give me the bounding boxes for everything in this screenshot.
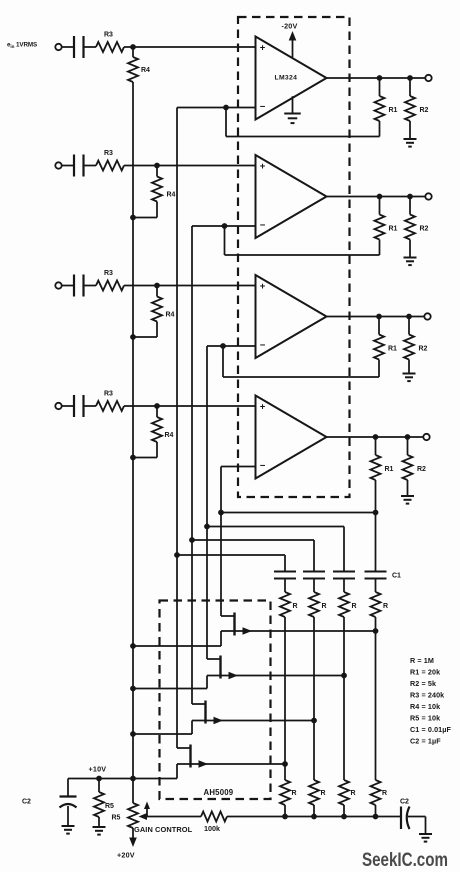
svg-text:+: + (260, 281, 266, 292)
transistor Q4 channel bar (189, 745, 191, 768)
svg-text:R: R (351, 790, 356, 797)
node input junction stage 4 (154, 403, 160, 409)
resistor R1 stage 1 (379, 78, 381, 96)
wire C2 to ground (408, 816, 426, 818)
wire (375, 617, 377, 780)
ground (R2 stage 2) (409, 240, 411, 258)
svg-text:SeekIC.com: SeekIC.com (362, 850, 448, 871)
resistor R (upper) stage 3 (339, 592, 349, 617)
node bottom line junction stage 2 (311, 814, 317, 820)
wire output stage 3 (327, 316, 425, 318)
node bottom line junction stage 4 (373, 814, 379, 820)
svg-text:R2: R2 (420, 226, 429, 233)
transistor Q2 gate/source line with arrow (207, 675, 344, 677)
svg-text:R: R (293, 603, 298, 610)
wire summing rail stage 1 (177, 554, 285, 556)
wire (84, 405, 97, 407)
wire inverting input stage 1 (177, 107, 256, 109)
svg-text:R4: R4 (165, 432, 174, 439)
svg-text:R2: R2 (420, 107, 429, 114)
wire (375, 579, 377, 593)
wire gate to bus Q4 (176, 764, 178, 779)
svg-text:R5 = 10k: R5 = 10k (410, 714, 440, 723)
input terminal IN4 (55, 403, 61, 409)
svg-text:R5: R5 (105, 803, 114, 810)
resistor R1 stage 2 (379, 197, 381, 215)
wire (343, 805, 345, 817)
resistor R3 stage 3 (96, 281, 124, 291)
svg-text:R: R (352, 603, 357, 610)
wire output stage 2 (327, 196, 426, 198)
capacitor C2 (supply bypass) (67, 779, 69, 797)
node output junction R1 stage 2 (377, 194, 383, 200)
svg-text:R = 1M: R = 1M (410, 656, 434, 665)
potentiometer wiper arrow (139, 813, 148, 820)
capacitor C1 stage 3 (333, 570, 355, 572)
wire (313, 805, 315, 817)
wire gate to bus Q1 (220, 631, 222, 646)
wire feedback R1 to inverting input stage 2 (379, 240, 381, 256)
svg-text:R4 = 10k: R4 = 10k (410, 702, 440, 711)
wire gain-control bus (vertical) (132, 82, 134, 779)
svg-text:R3: R3 (104, 270, 113, 277)
svg-text:R3: R3 (104, 150, 113, 157)
resistor 100k (201, 812, 227, 822)
resistor R1 stage 3 (378, 317, 380, 335)
node input junction stage 3 (154, 283, 160, 289)
wire gate to bus Q2 (206, 676, 208, 689)
svg-text:R: R (321, 790, 326, 797)
resistor R (lower) stage 3 (339, 780, 349, 805)
svg-text:GAIN CONTROL: GAIN CONTROL (134, 825, 193, 834)
resistor R2 stage 4 (407, 437, 409, 455)
wire inverting-input vertical stage 1 (176, 108, 178, 556)
wire output stage 1 (327, 77, 426, 79)
wire (124, 46, 256, 48)
svg-text:R2 = 5k: R2 = 5k (410, 679, 436, 688)
svg-text:−: − (260, 461, 266, 472)
resistor R3 stage 2 (96, 161, 124, 171)
wire (313, 617, 315, 780)
potentiometer R5 (gain control) (132, 779, 134, 804)
capacitor C1 stage 4 (365, 570, 387, 572)
node feedback junction stage 3 (220, 343, 226, 349)
svg-text:+: + (260, 161, 266, 172)
output terminal OUT4 (423, 434, 429, 440)
svg-text:C1: C1 (392, 573, 401, 580)
svg-text:R3: R3 (104, 32, 113, 39)
transistor Q3 gate/source line with arrow (192, 720, 314, 722)
LM324 quad op-amp dashed outline (238, 17, 350, 497)
wire (343, 617, 345, 780)
node output junction R2 stage 4 (405, 434, 411, 440)
wire R4 to gain bus (156, 322, 158, 338)
resistor R2 stage 3 (408, 317, 410, 335)
node FET source junction stage 4 (373, 628, 379, 634)
transistor Q3 (AH5009 JFET, channel 3) drain wire (191, 540, 193, 704)
op-amp U1B (256, 155, 327, 238)
wire (62, 405, 74, 407)
wire inverting input stage 2 (192, 225, 256, 227)
resistor R (lower) stage 1 (280, 780, 290, 805)
transistor Q4 gate/source line with arrow (177, 763, 285, 765)
wire R4 to gain bus (156, 442, 158, 458)
resistor R4 stage 2 (156, 166, 158, 177)
svg-text:R1 = 20k: R1 = 20k (410, 668, 440, 677)
wire feedback R1 to inverting input stage 3 (378, 360, 380, 378)
ground (LM324 supply pin) (292, 96, 294, 113)
node rail corner stage 4 (218, 510, 224, 516)
svg-text:C2: C2 (22, 799, 31, 806)
ground (C2 left) (67, 806, 69, 826)
node bottom line junction stage 1 (282, 814, 288, 820)
resistor R4 stage 1 (inline on gain bus) (132, 47, 134, 57)
input coupling capacitor stage 4 (73, 395, 75, 417)
node bottom line junction stage 3 (341, 814, 347, 820)
wire inverting-input vertical stage 3 (206, 346, 208, 527)
op-amp U1A LM324 (256, 37, 327, 120)
svg-text:-20V: -20V (282, 22, 298, 31)
ground (R5) (98, 817, 100, 827)
svg-text:R: R (292, 790, 297, 797)
wire inverting-input vertical stage 4 (220, 467, 222, 513)
svg-text:R4: R4 (166, 312, 175, 319)
svg-text:R1: R1 (389, 107, 398, 114)
wire summing rail stage 4 (221, 512, 376, 514)
transistor Q2 (AH5009 JFET, channel 2) drain wire (206, 527, 208, 660)
resistor R (lower) stage 2 (309, 780, 319, 805)
wiper adjustment arrow (up) (146, 807, 148, 817)
transistor Q2 channel bar (219, 656, 221, 679)
svg-text:R: R (322, 603, 327, 610)
wire (62, 285, 74, 287)
input terminal IN3 (55, 282, 61, 288)
svg-text:R5: R5 (112, 815, 121, 822)
node output junction R1 stage 3 (376, 314, 382, 320)
wire pot to +20V with arrow (132, 828, 134, 840)
svg-text:R4: R4 (167, 192, 176, 199)
node input junction stage 2 (154, 163, 160, 169)
wire gate to bus Q3 (191, 721, 193, 735)
svg-text:R1: R1 (388, 346, 397, 353)
svg-text:R2: R2 (419, 346, 428, 353)
transistor Q3 channel bar (204, 701, 206, 724)
node gain bus junction stage 2 (130, 215, 136, 221)
svg-text:R4: R4 (141, 67, 150, 74)
wire +10V supply line (68, 778, 177, 780)
node output junction R2 stage 3 (406, 314, 412, 320)
resistor R1 stage 4 (375, 437, 377, 455)
wire (375, 805, 377, 817)
svg-text:−: − (260, 340, 266, 351)
node output junction R1 stage 1 (377, 75, 383, 81)
wire R/C1 column stage 3 (343, 527, 345, 572)
svg-text:C2 = 1µF: C2 = 1µF (410, 737, 441, 746)
input coupling capacitor stage 2 (73, 155, 75, 177)
node output junction R1 stage 4 (373, 434, 379, 440)
op-amp U1C (256, 275, 327, 358)
svg-text:+20V: +20V (117, 851, 135, 860)
resistor R (upper) stage 1 (280, 592, 290, 617)
node FET source junction stage 1 (282, 761, 288, 767)
wire inverting input stage 3 (207, 345, 256, 347)
svg-text:R1: R1 (389, 226, 398, 233)
wire (343, 579, 345, 593)
resistor R (upper) stage 2 (309, 592, 319, 617)
svg-text:R: R (382, 790, 387, 797)
node input junction stage 1 (130, 44, 136, 50)
input coupling capacitor stage 1 (73, 36, 75, 58)
resistor R4 stage 3 (156, 286, 158, 297)
wire (84, 46, 97, 48)
ground (R2 stage 4) (407, 480, 409, 496)
power -20V supply arrow (LM324 pin) (292, 37, 294, 57)
svg-text:C1 = 0.01µF: C1 = 0.01µF (410, 725, 452, 734)
transistor Q4 (AH5009 JFET, channel 4) drain wire (176, 555, 178, 748)
node output junction R2 stage 1 (407, 75, 413, 81)
wire feedback R1 to inverting input stage 1 (379, 121, 381, 137)
wire (62, 165, 74, 167)
wire inverting input stage 4 (221, 466, 256, 468)
svg-text:R3 = 240k: R3 = 240k (410, 691, 444, 700)
wire (62, 46, 74, 48)
svg-text:R2: R2 (417, 466, 426, 473)
wire R/C1 column stage 1 (284, 555, 286, 572)
node feedback junction stage 1 (223, 105, 229, 111)
svg-text:+10V: +10V (89, 765, 107, 774)
wire R/C1 column stage 4 (375, 513, 377, 572)
ground (R2 stage 3) (408, 360, 410, 374)
wire (313, 579, 315, 593)
resistor R4 stage 4 (156, 406, 158, 417)
input terminal IN2 (55, 162, 61, 168)
svg-text:AH5009: AH5009 (204, 788, 234, 797)
resistor R (lower) stage 4 (371, 780, 381, 805)
svg-text:−: − (260, 102, 266, 113)
svg-text:R1: R1 (385, 466, 394, 473)
svg-text:+: + (260, 401, 266, 412)
capacitor C1 stage 2 (303, 570, 325, 572)
output terminal OUT2 (425, 193, 431, 199)
wire summing rail stage 2 (192, 539, 314, 541)
node gate bus junction Q1 (130, 643, 136, 649)
wire (284, 805, 286, 817)
wire (124, 405, 256, 407)
node rail corner stage 1 (174, 552, 180, 558)
node +10V / gain bus junction (130, 776, 136, 782)
node rail corner stage 3 (204, 524, 210, 530)
svg-text:100k: 100k (204, 824, 220, 833)
wire (124, 285, 256, 287)
output terminal OUT3 (424, 313, 430, 319)
svg-text:R3: R3 (104, 391, 113, 398)
capacitor C2 (output, polarized) (400, 807, 402, 830)
node rail corner stage 2 (189, 537, 195, 543)
AH5009 quad FET dashed outline (160, 601, 271, 800)
node gain bus junction stage 3 (130, 334, 136, 340)
node +10V / R5 junction (96, 776, 102, 782)
transistor Q1 gate/source line with arrow (221, 630, 376, 632)
resistor R2 stage 2 (409, 197, 411, 215)
ground (R2 stage 1) (409, 121, 411, 139)
wire feedback R1 stage 4 to rail (375, 480, 377, 513)
node gate bus junction Q3 (130, 731, 136, 737)
wire (84, 165, 97, 167)
capacitor C1 stage 1 (274, 570, 296, 572)
wire wiper line (145, 816, 201, 818)
node feedback junction stage 2 (222, 223, 228, 229)
resistor R (upper) stage 4 (371, 592, 381, 617)
wire bottom line (227, 816, 401, 818)
wire output stage 4 (327, 436, 424, 438)
input terminal IN1 (55, 44, 61, 50)
input coupling capacitor stage 3 (73, 275, 75, 297)
svg-text:R: R (383, 603, 388, 610)
svg-text:C2: C2 (400, 799, 409, 806)
svg-text:+: + (260, 42, 266, 53)
wire (84, 285, 97, 287)
wire (124, 165, 256, 167)
resistor R3 stage 4 (96, 401, 124, 411)
node rail junction R1 stage 4 (373, 510, 379, 516)
wire summing rail stage 3 (207, 526, 344, 528)
transistor Q1 channel bar (233, 613, 235, 636)
svg-text:LM324: LM324 (275, 75, 298, 82)
op-amp U1D (256, 396, 327, 479)
transistor Q1 (AH5009 JFET, channel 1) drain wire (220, 513, 222, 617)
resistor R5 (grounded) (98, 779, 100, 793)
svg-text:−: − (260, 220, 266, 231)
resistor R2 stage 1 (409, 78, 411, 96)
node output junction R2 stage 2 (407, 194, 413, 200)
output terminal OUT1 (425, 75, 431, 81)
node gate bus junction Q2 (130, 686, 136, 692)
wire inverting-input vertical stage 2 (191, 226, 193, 540)
wire R/C1 column stage 2 (313, 540, 315, 572)
node FET source junction stage 2 (311, 718, 317, 724)
resistor R3 stage 1 (96, 42, 124, 52)
wire (284, 617, 286, 780)
wire R4 to gain bus (156, 202, 158, 218)
node FET source junction stage 3 (341, 673, 347, 679)
ground (C2 right) (419, 833, 432, 835)
wire (284, 579, 286, 593)
node gain bus junction stage 4 (130, 455, 136, 461)
